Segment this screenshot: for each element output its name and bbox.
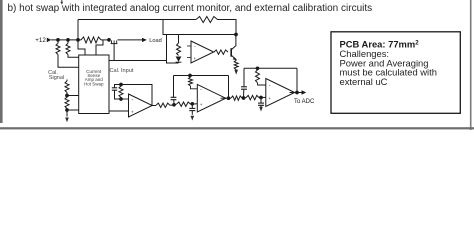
wire stage3 output to ADC <box>290 92 302 94</box>
wire block to stage1 noninv input <box>109 110 129 112</box>
arrow stage3 ground <box>259 107 263 112</box>
wire div bottom stub <box>66 109 68 117</box>
wire R-bias2 top stub <box>67 40 69 43</box>
resistor R-sense on rail <box>81 37 101 43</box>
wire cal divider top stub <box>66 80 68 82</box>
capacitor C1 parallel branch <box>115 85 122 88</box>
resistor R-s3in horizontal <box>246 95 259 99</box>
svg-text:+: + <box>200 102 203 107</box>
capacitor C-g2 to ground <box>191 104 193 108</box>
node stage3 out <box>295 91 299 95</box>
svg-text:Cal. Input: Cal. Input <box>110 68 134 74</box>
node stage3 fb <box>256 66 260 70</box>
resistor R-s1out horizontal <box>156 103 170 107</box>
svg-text:Signal: Signal <box>49 75 64 81</box>
op-amp U5 stage3 <box>266 79 295 107</box>
wire div mid <box>66 93 68 98</box>
wire rail riser to top feedback wire <box>77 20 79 40</box>
arrow stage2 ground <box>190 116 194 121</box>
wire top pullup run <box>78 19 196 21</box>
node div tap1 <box>65 94 69 98</box>
node rail dot2 <box>66 38 70 42</box>
node div tap2 <box>65 108 69 112</box>
svg-text:b) hot swap with integrated an: b) hot swap with integrated analog curre… <box>8 3 373 14</box>
resistor R-base horizontal <box>214 50 228 54</box>
arrow to load <box>142 38 147 42</box>
node rail dot4 <box>107 38 111 42</box>
PCB info box <box>331 32 460 114</box>
node stage2 out <box>227 96 231 100</box>
svg-text:external uC: external uC <box>340 76 388 87</box>
node stage2 plus input <box>190 102 194 106</box>
wire cal input from block <box>109 60 167 62</box>
resistor R-emitter vertical <box>235 59 237 62</box>
wire div tap2 to block <box>67 109 79 111</box>
wire stage2 output <box>221 97 231 99</box>
wire stage1 feedback top <box>121 85 152 106</box>
frame right gray line <box>470 0 472 130</box>
wire stage2 feedback top <box>174 75 229 77</box>
capacitor C-g3 to ground <box>260 98 262 103</box>
transistor Q1 npn <box>230 48 232 57</box>
arrow emitter ground <box>234 70 238 75</box>
resistor R-s2out horizontal <box>231 96 242 100</box>
svg-text:+: + <box>193 56 196 61</box>
wire div tap1 to block <box>67 95 79 97</box>
wire cal input riser <box>166 35 168 61</box>
svg-text:Hot Swap: Hot Swap <box>84 81 104 86</box>
resistor R-div1 vertical <box>65 81 69 93</box>
wire R-bias1 bottom to block <box>58 55 79 68</box>
frame left gray bar <box>0 0 3 123</box>
node stage1 fb top <box>119 83 123 87</box>
resistor R-fb3 vertical <box>256 70 260 83</box>
block U1 Current Sense Amp and Hot Swap <box>79 55 109 114</box>
resistor R-fb2 vertical <box>189 77 193 86</box>
svg-text:Load: Load <box>149 38 161 44</box>
wire stage3 fb right down <box>296 68 298 92</box>
arrow to ADC <box>302 90 307 94</box>
resistor R-fb1 vertical <box>119 86 123 98</box>
node stage2 fb <box>188 74 192 78</box>
wire R-bias1 top stub <box>57 40 59 43</box>
mosfet Q-hotswap tiny symbol <box>111 40 113 43</box>
resistor R-bias2 vertical at x68 <box>66 43 70 54</box>
op-amp U4 stage2 <box>197 84 225 112</box>
node stage3 plus input <box>259 96 263 100</box>
svg-text:+: + <box>268 96 271 101</box>
wire stage1 output <box>152 105 156 107</box>
resistor R-div2 vertical <box>65 97 69 109</box>
wire sense tap left staircase <box>78 40 85 58</box>
svg-text:To ADC: To ADC <box>294 99 315 105</box>
resistor R-s2in horizontal <box>177 102 191 106</box>
resistor R-cal vertical <box>178 35 180 44</box>
wire rail after sense resistor <box>101 39 111 41</box>
frame bottom gray line <box>0 127 474 129</box>
op-amp U3 stage1 <box>129 94 153 117</box>
wire cal riser bottom jog <box>167 61 179 64</box>
wire R-bias2 bottom to block <box>68 55 79 58</box>
stray tick above title <box>61 0 63 2</box>
+12 input arrow <box>47 38 51 43</box>
transistor Q1 collector <box>231 35 236 50</box>
svg-text:+12: +12 <box>35 37 46 44</box>
arrow div ground <box>65 118 69 123</box>
node rail dot1 <box>56 38 60 42</box>
svg-text:+: + <box>131 109 134 114</box>
node A2 <box>172 103 176 107</box>
capacitor C3 feedback branch <box>243 68 245 86</box>
wire R-fb3 to inv input <box>258 83 266 85</box>
node collector junction <box>234 33 238 37</box>
wire topwire drop at x163 <box>163 20 236 35</box>
node rail dot3 <box>76 38 80 42</box>
resistor R-bias1 vertical at x58 <box>56 43 60 54</box>
wire +12 rail <box>51 39 81 41</box>
wire stage3 feedback top <box>244 67 297 69</box>
wire U2 input stubs <box>187 45 193 47</box>
diode D1 pointing down <box>176 57 182 62</box>
capacitor C2 feedback branch <box>173 76 175 98</box>
wire rail to load <box>118 39 143 41</box>
wire stage1 inv input <box>121 98 129 100</box>
wire stage2 fb right down <box>228 76 230 99</box>
resistor R-pullup horizontal <box>196 17 218 23</box>
node A3 <box>242 96 246 100</box>
wire top pullup to collector node <box>218 20 237 35</box>
node stage1 fb bottom <box>119 97 123 101</box>
wire mosfet gate down <box>113 44 115 61</box>
wire R-fb2 to inv input <box>191 86 198 89</box>
wire sense tap right staircase <box>96 40 103 58</box>
transistor Q1 emitter with arrow <box>231 55 236 60</box>
